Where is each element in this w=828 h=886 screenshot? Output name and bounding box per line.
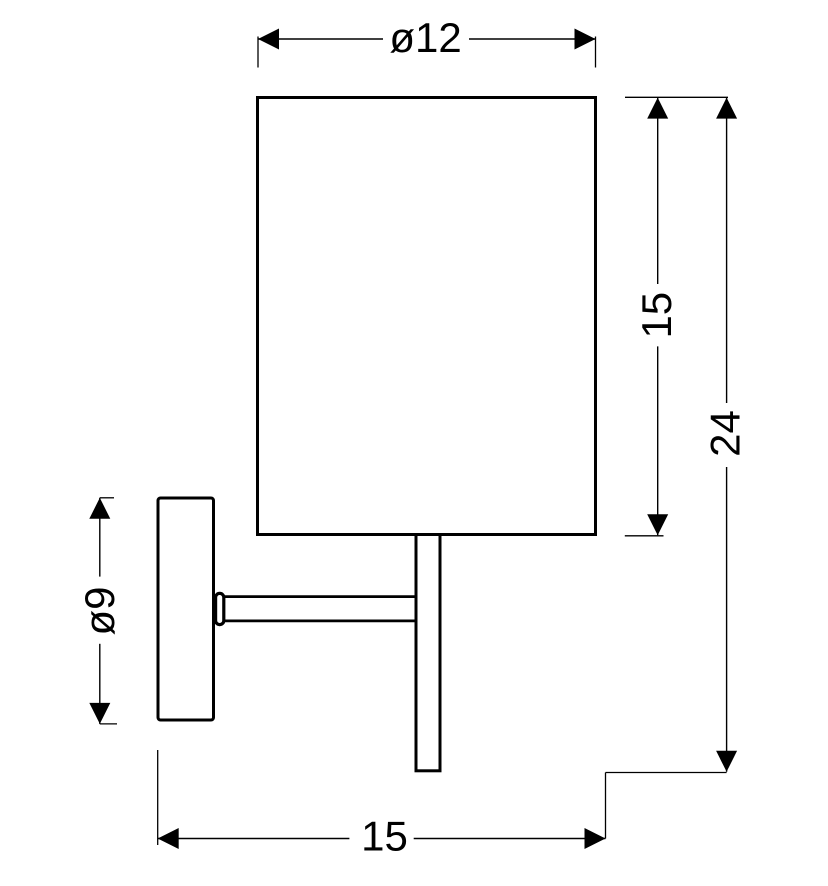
- dimension ø9: top arrowhead: [89, 498, 110, 519]
- arm bottom line: [225, 620, 417, 623]
- svg-text:ø12: ø12: [389, 14, 461, 61]
- dimension 15 right: bottom extension line: [625, 535, 664, 537]
- wall mount plate: [158, 498, 214, 720]
- svg-text:24: 24: [702, 410, 749, 457]
- arm top line: [225, 595, 417, 598]
- dimension ø9: bottom arrowhead: [89, 703, 110, 724]
- dimension ø12: left line segment: [258, 38, 383, 40]
- dimension 15 right: bottom arrowhead: [647, 514, 668, 535]
- dimension 15 bottom: left arrowhead: [158, 828, 179, 849]
- svg-text:15: 15: [361, 813, 408, 860]
- dimension ø9: bottom tick: [100, 723, 117, 725]
- dimension ø9: lower line segment: [99, 644, 101, 724]
- dimension 24: top arrowhead: [716, 98, 737, 119]
- dimension ø12: right extension line: [595, 37, 597, 68]
- dimension 15 bottom: left extension line: [157, 750, 159, 845]
- arm connector pill: [216, 593, 224, 624]
- dimension ø12: right arrowhead: [575, 29, 596, 50]
- dimension 24: bottom leader vertical: [605, 773, 607, 839]
- dimension 24: upper line segment: [726, 98, 728, 403]
- dimension ø12: right line segment: [469, 38, 596, 40]
- dimension ø9: top tick: [100, 497, 114, 499]
- lampshade body: [258, 98, 596, 535]
- dimension 15 bottom: left line segment: [158, 838, 350, 840]
- svg-text:15: 15: [633, 292, 680, 339]
- svg-text:ø9: ø9: [76, 586, 123, 635]
- dimension ø12: left arrowhead: [258, 29, 279, 50]
- dimension 24: bottom leader horizontal: [606, 772, 727, 774]
- dimension 24: lower line segment: [726, 467, 728, 772]
- dimension 15 bottom: right line segment: [414, 838, 606, 840]
- dimension ø12: left extension line: [257, 37, 259, 68]
- dimension ø9: upper line segment: [99, 498, 101, 577]
- dimension 15 bottom: right arrowhead: [585, 828, 606, 849]
- dimension 24: bottom arrowhead: [716, 751, 737, 772]
- vertical stem: [416, 535, 440, 771]
- dimension 15 right: top arrowhead: [647, 98, 668, 119]
- dimension 15 right: top extension line (shared with 24): [625, 96, 728, 98]
- dimension 15 right: lower line segment: [657, 346, 659, 535]
- dimension 15 right: upper line segment: [657, 98, 659, 284]
